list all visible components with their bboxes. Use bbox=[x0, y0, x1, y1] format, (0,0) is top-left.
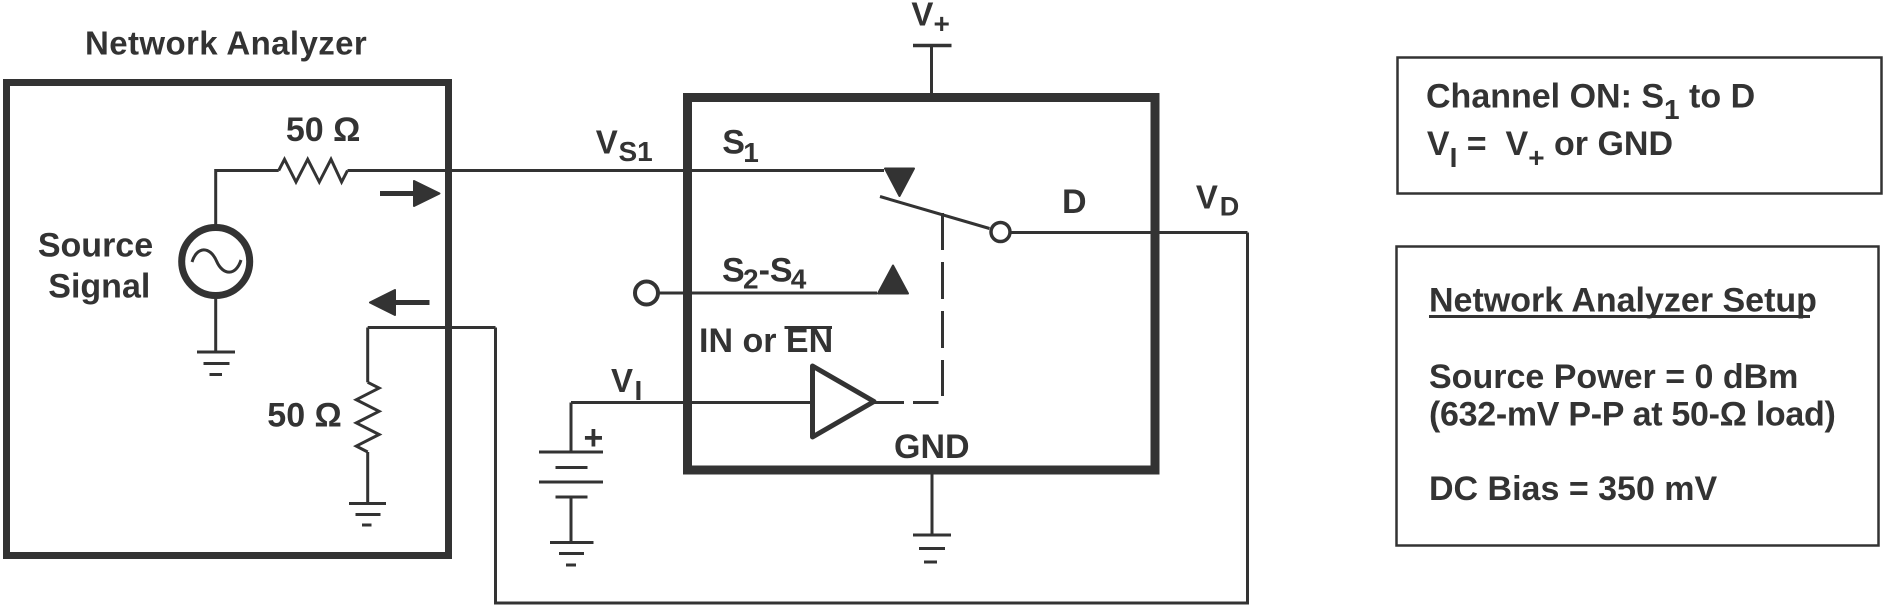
supply V+ label bbox=[911, 0, 949, 39]
wire resistor to ground bbox=[366, 452, 369, 503]
arrow incident (right) bbox=[380, 181, 440, 206]
wire resistor to S1 pin bbox=[348, 169, 885, 172]
note text: source power bbox=[1429, 358, 1798, 396]
svg-text:Network Analyzer Setup: Network Analyzer Setup bbox=[1429, 282, 1817, 320]
svg-text:V: V bbox=[596, 124, 618, 161]
note box: channel on bbox=[1398, 58, 1882, 194]
Network Analyzer title bbox=[85, 25, 367, 62]
svg-text:Channel ON: S1 to D: Channel ON: S1 to D bbox=[1426, 78, 1755, 126]
label VI bbox=[611, 362, 642, 406]
value label 50 ohm (series) bbox=[286, 111, 361, 149]
note text: dc bias bbox=[1429, 470, 1718, 508]
note text: p-p load bbox=[1429, 396, 1835, 434]
wire V+ to box bbox=[930, 46, 933, 95]
wire source to ground bbox=[214, 296, 217, 352]
svg-text:50 Ω: 50 Ω bbox=[286, 111, 361, 149]
wire VI input bbox=[571, 401, 810, 404]
label VD bbox=[1196, 179, 1239, 222]
pin label D bbox=[1062, 183, 1087, 221]
pin label S1 bbox=[722, 124, 759, 169]
wire GND pin bbox=[931, 474, 934, 535]
svg-text:4: 4 bbox=[791, 264, 807, 295]
label IN or EN bbox=[699, 322, 833, 360]
ground (battery) bbox=[550, 543, 594, 566]
svg-text:Source: Source bbox=[38, 227, 153, 265]
buffer output lead bbox=[874, 401, 904, 404]
svg-text:+: + bbox=[934, 8, 950, 39]
terminal circle S2-S4 bbox=[635, 282, 658, 305]
wire source to resistor bbox=[216, 171, 279, 228]
switch contact S2-S4 (up triangle) bbox=[878, 266, 908, 294]
ground (shunt resistor) bbox=[349, 504, 386, 526]
note text: Channel ON: S1 to D bbox=[1426, 78, 1755, 126]
svg-text:-S: -S bbox=[759, 252, 793, 290]
svg-text:GND: GND bbox=[894, 428, 970, 466]
note heading: Network Analyzer Setup bbox=[1429, 282, 1817, 320]
pin label S2-S4 bbox=[722, 252, 807, 295]
switch throw contact S1 (down triangle) bbox=[885, 169, 914, 197]
svg-text:S: S bbox=[722, 124, 745, 162]
wire battery to ground bbox=[570, 497, 573, 543]
svg-text:50 Ω: 50 Ω bbox=[267, 397, 342, 435]
pin label GND bbox=[894, 428, 970, 466]
svg-text:S: S bbox=[722, 252, 745, 290]
svg-text:(632-mV P-P at 50-Ω load): (632-mV P-P at 50-Ω load) bbox=[1429, 396, 1835, 434]
svg-text:Signal: Signal bbox=[48, 268, 150, 306]
switch common node circle bbox=[991, 223, 1010, 242]
note box: network analyzer setup bbox=[1397, 247, 1879, 546]
wire shunt branch horizontal bbox=[368, 326, 496, 329]
source signal circle bbox=[182, 228, 250, 296]
label Source Signal bbox=[38, 227, 153, 306]
svg-text:D: D bbox=[1062, 183, 1087, 221]
svg-text:1: 1 bbox=[743, 137, 759, 168]
buffer driver (triangle) bbox=[813, 366, 875, 437]
switch device box U1 bbox=[688, 98, 1156, 471]
overline on EN bbox=[785, 326, 833, 329]
return wire (VD to network analyzer) bbox=[496, 233, 1248, 604]
arrow reflected (left) bbox=[370, 290, 430, 315]
svg-text:Source Power = 0 dBm: Source Power = 0 dBm bbox=[1429, 358, 1798, 396]
svg-text:V: V bbox=[611, 362, 633, 399]
supply V+ terminal bar bbox=[913, 44, 952, 48]
svg-text:S1: S1 bbox=[619, 136, 653, 167]
value label 50 ohm (shunt) bbox=[267, 397, 342, 435]
resistor 50 ohm series (horizontal) bbox=[279, 159, 348, 182]
svg-text:VI = V+ or GND: VI = V+ or GND bbox=[1427, 125, 1673, 173]
battery V1 plates bbox=[539, 452, 603, 497]
battery + label bbox=[584, 419, 604, 457]
svg-text:V: V bbox=[911, 0, 933, 33]
svg-text:DC Bias = 350 mV: DC Bias = 350 mV bbox=[1429, 470, 1718, 508]
wire shunt branch vertical bbox=[366, 328, 369, 383]
svg-text:Network Analyzer: Network Analyzer bbox=[85, 25, 367, 62]
ground (device GND) bbox=[913, 535, 951, 562]
ground (source) bbox=[197, 352, 235, 375]
wire S2-S4 bbox=[659, 292, 878, 295]
svg-text:2: 2 bbox=[743, 264, 759, 295]
note text: VI = V+ or GND bbox=[1427, 125, 1673, 173]
svg-text:D: D bbox=[1220, 192, 1240, 222]
Network Analyzer box bbox=[7, 83, 449, 556]
wire VI to battery bbox=[570, 403, 573, 453]
switch pole arm bbox=[880, 197, 990, 229]
resistor 50 ohm shunt (vertical) bbox=[356, 382, 379, 452]
svg-text:V: V bbox=[1196, 179, 1218, 216]
label VS1 bbox=[596, 124, 653, 168]
wire D output bbox=[1011, 231, 1248, 234]
dashed link (switch control) bbox=[913, 213, 943, 403]
